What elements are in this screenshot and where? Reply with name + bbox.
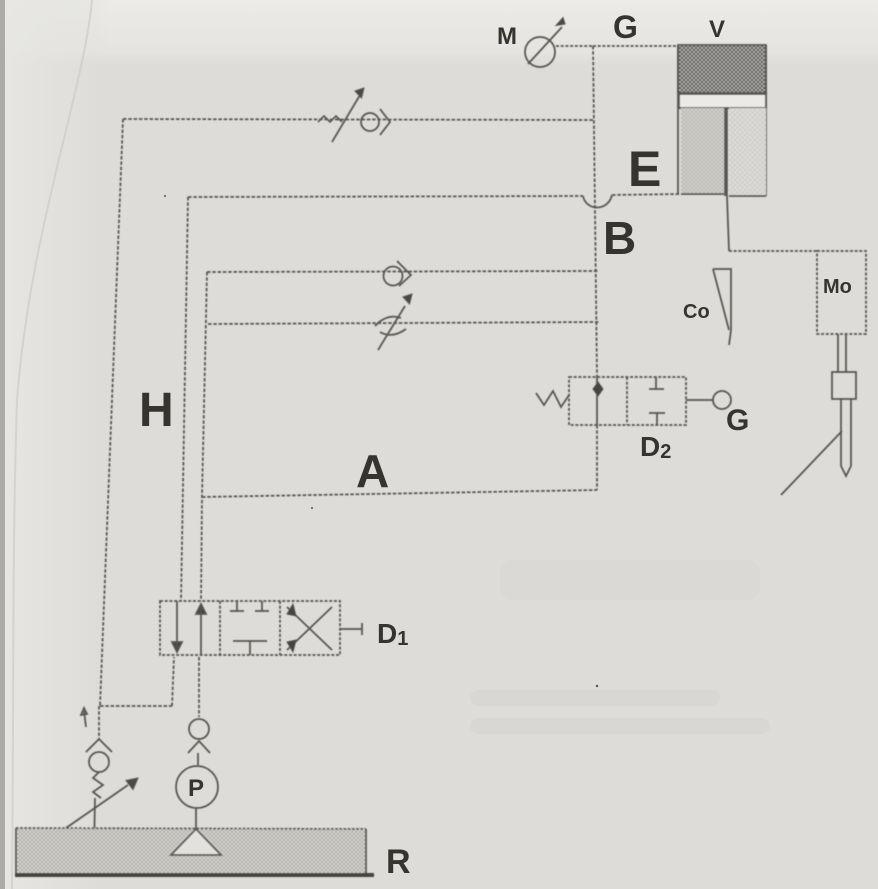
svg-text:P: P — [188, 775, 204, 802]
wire: node G to cylinder top — [593, 45, 678, 47]
wire: left vertical to D1 — [201, 272, 207, 601]
cylinder V body — [678, 45, 766, 251]
drill chuck — [832, 372, 856, 399]
wire: E line with hop over vertical — [188, 196, 583, 197]
svg-text:V: V — [709, 16, 725, 43]
drill bit — [841, 399, 851, 476]
wire: E vertical down to D1 — [181, 197, 188, 601]
wire: check branch — [207, 271, 598, 272]
valve D2 — [536, 377, 731, 425]
svg-text:M: M — [497, 23, 517, 50]
piston rod — [724, 108, 728, 196]
wire: throttle branch — [208, 322, 599, 324]
svg-text:R: R — [386, 843, 411, 881]
svg-text:Co: Co — [683, 301, 710, 323]
pointer line to drill — [781, 431, 842, 495]
reservoir R — [15, 828, 374, 875]
wire: gauge to node G — [556, 45, 593, 47]
wire: main vertical G-B line — [593, 46, 597, 377]
pump P — [176, 753, 218, 829]
flow tick arrow on H — [81, 708, 87, 727]
svg-text:G: G — [726, 404, 749, 437]
roller pilot G of D2 — [686, 399, 713, 401]
svg-text:B: B — [603, 212, 636, 264]
pressure gauge M — [525, 18, 565, 68]
wire: top flow-control line — [123, 119, 593, 120]
svg-text:H: H — [139, 384, 174, 437]
wire: below D2 down to corner A — [596, 425, 598, 490]
wire: H line — [100, 119, 123, 706]
rod link to Mo — [729, 250, 817, 252]
spring of D2 — [536, 391, 569, 407]
check valve above pump — [188, 657, 210, 753]
cam wedge Co — [713, 269, 731, 345]
check valve on branch — [384, 261, 412, 286]
wire: A line — [202, 490, 597, 497]
svg-text:G: G — [613, 9, 638, 45]
suction strainer — [171, 829, 221, 855]
flow control valve (throttle + check) — [318, 88, 390, 142]
motor box Mo — [817, 251, 866, 334]
relief valve to tank — [66, 706, 138, 852]
svg-text:E: E — [628, 141, 661, 197]
drill spindle — [838, 334, 846, 372]
valve D1 — [160, 601, 362, 655]
svg-text:Mo: Mo — [823, 276, 852, 298]
svg-text:A: A — [356, 445, 389, 497]
throttle valve on branch — [375, 294, 412, 350]
